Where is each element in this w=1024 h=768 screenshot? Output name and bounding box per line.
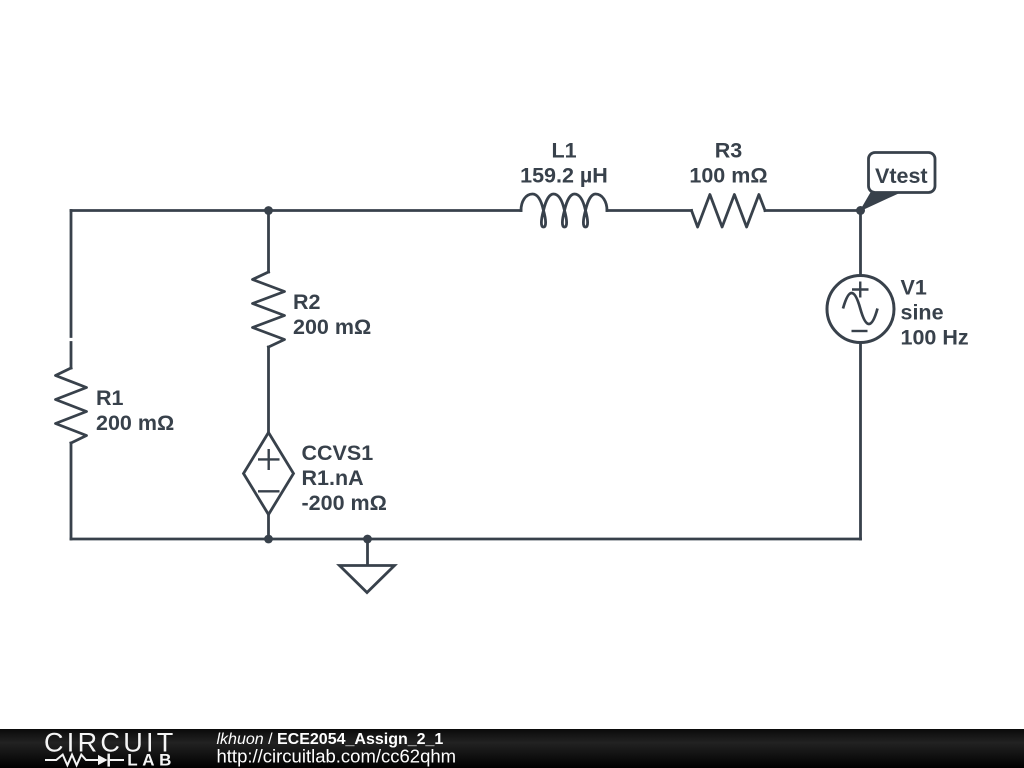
wire left lower (70, 443, 73, 539)
svg-text:R1.nA: R1.nA (302, 466, 364, 490)
CCVS1 minus sign (258, 490, 280, 492)
V1 minus sign (852, 330, 868, 332)
ground (340, 539, 395, 593)
svg-text:Vtest: Vtest (875, 164, 928, 188)
svg-text:200 mΩ: 200 mΩ (293, 315, 371, 339)
node junction dot (ground) (363, 535, 372, 544)
node junction dot (R2 top) (264, 206, 273, 215)
svg-text:R1: R1 (96, 386, 124, 410)
CCVS1 diamond (244, 433, 294, 515)
svg-text:R3: R3 (715, 138, 743, 162)
node junction dot Vtest (856, 206, 865, 215)
svg-text:-200 mΩ: -200 mΩ (302, 491, 387, 515)
CCVS1 plus sign (258, 449, 280, 470)
wire CCVS1 to bottom (267, 515, 270, 540)
node junction dot (CCVS bottom) (264, 535, 273, 544)
wire top: left corner to inductor (71, 209, 521, 212)
inductor L1 (521, 194, 607, 227)
V1 sine wave (843, 293, 878, 324)
svg-text:sine: sine (901, 301, 944, 325)
wire top: between L1 and R3 (607, 209, 692, 212)
svg-text:200 mΩ: 200 mΩ (96, 411, 174, 435)
wire left upper (70, 211, 73, 337)
resistor R1 (56, 368, 87, 443)
wire R2 top lead (267, 211, 270, 273)
wire R2 to CCVS1 (267, 347, 270, 433)
svg-text:100 Hz: 100 Hz (901, 326, 969, 350)
svg-text:R2: R2 (293, 290, 321, 314)
wire left R1 upper lead (70, 343, 73, 369)
svg-text:L1: L1 (551, 138, 576, 162)
resistor R3 (692, 195, 766, 228)
Vtest flag box (869, 153, 936, 193)
svg-text:LAB: LAB (127, 751, 176, 768)
svg-text:V1: V1 (901, 276, 927, 300)
svg-text:CCVS1: CCVS1 (302, 441, 374, 465)
wire right upper (node to V1) (859, 211, 862, 276)
svg-text:159.2 µH: 159.2 µH (520, 163, 608, 187)
Vtest flag tail (861, 193, 900, 211)
svg-text:http://circuitlab.com/cc62qhm: http://circuitlab.com/cc62qhm (217, 746, 457, 767)
logo resistor squiggle (45, 755, 98, 766)
resistor R2 (253, 272, 285, 347)
V1 plus sign (852, 282, 869, 298)
wire right lower (below V1) (859, 343, 862, 540)
wire top: R3 to Vtest node (765, 209, 861, 212)
voltage source V1 (827, 276, 894, 343)
logo diode (98, 755, 108, 765)
wire bottom (71, 538, 861, 541)
svg-text:100 mΩ: 100 mΩ (689, 163, 767, 187)
